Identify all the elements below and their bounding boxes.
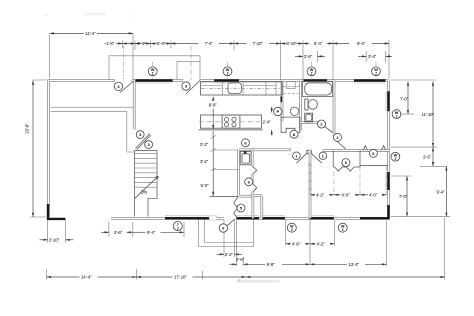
living room ceiling break line: [51, 106, 135, 108]
svg-text:9’-4”: 9’-4”: [437, 189, 446, 194]
bedroom2 west wall: [309, 150, 312, 219]
bottom outer wall: [111, 217, 389, 220]
svg-text:13’-4”: 13’-4”: [349, 262, 360, 267]
dim row1 top: 14'-4": [50, 31, 133, 79]
powder room toilet: [240, 151, 251, 165]
svg-text:4’-0”: 4’-0”: [369, 193, 378, 198]
bottom-left thick corner L (black): [48, 204, 66, 219]
svg-text:5’-0”: 5’-0”: [200, 183, 209, 188]
door symbol circles: [114, 82, 122, 90]
svg-text:2’-2”: 2’-2”: [225, 252, 234, 257]
patio door symbol: [173, 222, 182, 231]
svg-text:2: 2: [342, 228, 344, 232]
svg-text:3’-4”: 3’-4”: [368, 54, 377, 59]
top wall: window wall left of kitchen: [132, 79, 183, 82]
right side dim 2'-6": [420, 147, 447, 166]
svg-text:2’-6”: 2’-6”: [236, 257, 245, 262]
black jamb at counter end: [280, 96, 282, 102]
bath west wall: [299, 81, 302, 131]
hall south wall: [239, 148, 291, 151]
powder room west wall with bifold gaps: [237, 149, 240, 198]
second entry door leaf: [186, 81, 200, 95]
svg-text:2: 2: [152, 72, 154, 76]
svg-text:9’-4”: 9’-4”: [357, 41, 366, 46]
svg-text:DN: DN: [141, 190, 147, 195]
svg-text:23’-8”: 23’-8”: [25, 123, 30, 134]
svg-text:2’-6”: 2’-6”: [423, 155, 432, 160]
closet A (lower bedroom): [333, 150, 360, 171]
svg-text:2: 2: [291, 228, 293, 232]
svg-text:3’-6”: 3’-6”: [114, 230, 123, 235]
bath toilet: [305, 99, 318, 110]
svg-text:7’-10”: 7’-10”: [252, 41, 263, 46]
bottom wall window blacks: [236, 217, 259, 219]
bottom row W: 2'-10", 3'-6", 9'-4": [40, 221, 185, 243]
svg-text:4’-4”: 4’-4”: [137, 41, 146, 46]
right wall corner thick (black): [387, 205, 389, 219]
svg-text:3’-2”: 3’-2”: [200, 159, 209, 164]
right side dim 7'-0" upper: [391, 80, 437, 114]
svg-text:2: 2: [396, 114, 398, 118]
svg-text:5’-4”: 5’-4”: [314, 41, 323, 46]
window header bedroom2 top (black): [354, 79, 386, 81]
svg-text:2’-6”: 2’-6”: [304, 54, 313, 59]
window right wall lower (black): [387, 172, 389, 190]
svg-text:3’-10”: 3’-10”: [286, 41, 297, 46]
svg-text:7’-0”: 7’-0”: [399, 194, 408, 199]
closet dim row V inside bedroom2: [310, 163, 387, 198]
bottom wall patio door (black): [165, 217, 210, 219]
closet under stairs wall: [210, 195, 239, 197]
powder room bifold door zigzags: [252, 166, 257, 175]
svg-text:8’-8”: 8’-8”: [209, 103, 218, 108]
svg-text:2’-4”: 2’-4”: [263, 119, 272, 124]
left vertical dim 23'-8": [25, 80, 47, 217]
svg-text:11’-10”: 11’-10”: [422, 112, 435, 117]
svg-text:5’-4”: 5’-4”: [157, 41, 166, 46]
wall between bedroom1 and closets: [323, 149, 389, 152]
powder room east wall: [251, 150, 254, 196]
centerline dashes to window symbols: [124, 46, 377, 222]
front door threshold white box: [209, 216, 217, 220]
window symbols right wall: [392, 110, 401, 119]
kitchen vertical dim stack x=211.8: [200, 97, 239, 197]
window header top-left (black): [135, 79, 172, 81]
window symbols bottom wall: [287, 223, 296, 232]
stair top door leaf (double line): [136, 134, 152, 150]
window right wall upper (black): [387, 91, 389, 111]
right side dim 11'-10": [391, 82, 437, 148]
svg-text:14’-4”: 14’-4”: [81, 275, 92, 280]
front door swing: [221, 219, 235, 232]
chimney chase box: [287, 82, 295, 89]
mini dim 2'-2" at front door: [217, 220, 243, 257]
window symbol circles on top wall: [148, 67, 157, 76]
bottom row Z: 14'-4", 17'-10": [47, 218, 445, 280]
kitchen mini dim 2'-4": [263, 107, 272, 136]
porch outline top-left: [109, 56, 200, 80]
svg-text:17’-10”: 17’-10”: [174, 275, 187, 280]
svg-text:2: 2: [394, 157, 396, 161]
bath south wall: [301, 121, 319, 124]
kitchen upper counter: [201, 82, 283, 95]
stairs: [135, 150, 159, 216]
dim row2: ticks and labels: [105, 40, 390, 80]
svg-text:2: 2: [311, 72, 313, 76]
right side dim 7'-0" lower: [391, 176, 450, 217]
pantry shelf dash lines: [283, 86, 300, 88]
dim row3 small: 2'-6" and 3'-4": [295, 51, 392, 62]
svg-text:2: 2: [375, 72, 377, 76]
bedroom1 west wall (upper right): [333, 81, 336, 137]
outer wall: left wall + top-left wall: [49, 79, 183, 216]
svg-text:14’-4”: 14’-4”: [85, 31, 96, 36]
entry stoop outline: [199, 220, 254, 247]
kitchen island counter with cooktop: [199, 115, 263, 130]
double door to bedroom2: [307, 150, 312, 153]
svg-text:2’-10”: 2’-10”: [49, 238, 60, 243]
svg-text:2: 2: [177, 226, 179, 230]
svg-text:1’-8”: 1’-8”: [106, 41, 115, 46]
svg-text:3’-2”: 3’-2”: [200, 142, 209, 147]
bedroom1 door leaf: [334, 139, 346, 149]
right side dim 9'-4": [437, 166, 447, 216]
svg-text:2: 2: [227, 72, 229, 76]
svg-text:9’-4”: 9’-4”: [147, 230, 156, 235]
faint scan smudges: [236, 280, 280, 283]
svg-text:7’-0”: 7’-0”: [400, 96, 409, 101]
top-left entry door leaf: [120, 81, 134, 93]
svg-text:9’-8”: 9’-8”: [267, 262, 276, 267]
bottom row X: 4'-6", 4'-2": [286, 221, 335, 265]
window header bath (black): [304, 79, 328, 81]
bath door leaf: [319, 122, 333, 133]
bath vanity sink: [305, 113, 313, 122]
svg-text:4’-2”: 4’-2”: [317, 242, 326, 247]
porch right edge: [199, 56, 201, 81]
round fixture left of bath: [290, 107, 298, 115]
vestibule east walls: [253, 196, 262, 219]
svg-text:4’-0”: 4’-0”: [342, 193, 351, 198]
closet B (lower bedroom): [360, 146, 388, 166]
bottom row Y: 2'-6", 9'-8", 13'-4": [230, 220, 387, 267]
powder room top wall: [239, 150, 253, 196]
svg-text:4’-2”: 4’-2”: [316, 193, 325, 198]
svg-text:P: P: [276, 109, 279, 114]
refrigerator / pantry box: [281, 117, 300, 132]
svg-text:7’-4”: 7’-4”: [204, 41, 213, 46]
window sill lines: [135, 82, 385, 84]
svg-text:4’-6”: 4’-6”: [292, 242, 301, 247]
bath tub: [302, 81, 332, 96]
top wall: kitchen to right corner: [201, 79, 389, 82]
right outer wall: [387, 81, 390, 220]
window header kitchen (black): [214, 79, 239, 81]
pantry wall between kitchen and bath nook: [281, 81, 284, 122]
